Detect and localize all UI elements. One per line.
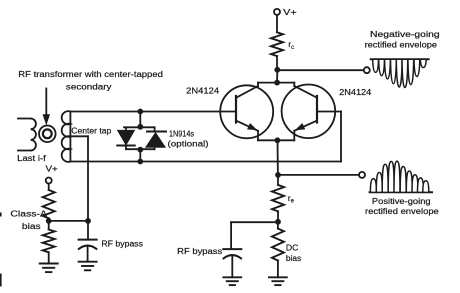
svg-text:RF transformer with center-tap: RF transformer with center-tapped bbox=[18, 70, 163, 79]
svg-text:(optional): (optional) bbox=[168, 139, 209, 148]
svg-text:RF bypass: RF bypass bbox=[177, 247, 222, 256]
svg-text:Negative-going: Negative-going bbox=[370, 30, 440, 39]
svg-text:secondary: secondary bbox=[66, 83, 112, 92]
svg-text:Center tap: Center tap bbox=[71, 126, 112, 135]
svg-text:2N4124: 2N4124 bbox=[186, 86, 220, 95]
svg-text:DC: DC bbox=[286, 243, 299, 252]
svg-text:bias: bias bbox=[22, 222, 41, 231]
svg-text:Class-A: Class-A bbox=[10, 209, 47, 218]
svg-text:2N4124: 2N4124 bbox=[339, 88, 372, 97]
svg-text:rectified envelope: rectified envelope bbox=[365, 41, 438, 50]
svg-text:rectified envelope: rectified envelope bbox=[365, 207, 439, 216]
svg-text:bias: bias bbox=[286, 254, 301, 263]
svg-text:Last i-f: Last i-f bbox=[17, 154, 47, 163]
svg-text:V+: V+ bbox=[46, 165, 59, 174]
svg-text:1N914s: 1N914s bbox=[169, 130, 194, 139]
svg-text:Positive-going: Positive-going bbox=[372, 197, 431, 206]
svg-text:RF bypass: RF bypass bbox=[101, 239, 143, 248]
svg-text:V+: V+ bbox=[283, 8, 297, 17]
